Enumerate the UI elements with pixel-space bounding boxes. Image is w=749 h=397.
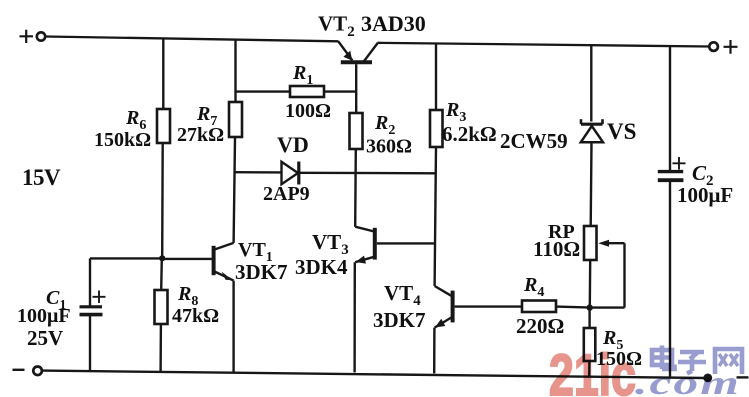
svg-text:6.2kΩ: 6.2kΩ	[442, 122, 497, 146]
svg-text:100Ω: 100Ω	[285, 100, 331, 122]
svg-text:150kΩ: 150kΩ	[94, 129, 151, 151]
svg-text:3AD30: 3AD30	[361, 11, 426, 36]
svg-text:VD: VD	[277, 132, 309, 157]
svg-text:R1: R1	[292, 62, 313, 88]
svg-text:3DK7: 3DK7	[373, 308, 426, 332]
svg-text:2CW59: 2CW59	[500, 129, 568, 153]
svg-text:R2: R2	[374, 112, 395, 138]
svg-text:360Ω: 360Ω	[366, 136, 412, 158]
svg-text:VT3: VT3	[312, 230, 349, 258]
svg-text:27kΩ: 27kΩ	[177, 124, 224, 146]
svg-text:R4: R4	[523, 274, 544, 300]
svg-text:47kΩ: 47kΩ	[172, 305, 219, 327]
svg-text:VT2: VT2	[318, 12, 355, 41]
svg-text:110Ω: 110Ω	[533, 237, 580, 261]
svg-text:220Ω: 220Ω	[516, 314, 564, 338]
svg-text:2AP9: 2AP9	[263, 183, 310, 205]
svg-text:VS: VS	[607, 119, 636, 144]
svg-text:3DK4: 3DK4	[295, 255, 348, 279]
svg-text:150Ω: 150Ω	[596, 348, 642, 370]
svg-text:25V: 25V	[27, 326, 63, 350]
svg-text:3DK7: 3DK7	[235, 260, 288, 284]
svg-text:100μF: 100μF	[677, 183, 733, 207]
svg-text:15V: 15V	[22, 165, 61, 190]
svg-text:100μF: 100μF	[17, 305, 71, 327]
svg-text:VT4: VT4	[384, 281, 421, 309]
